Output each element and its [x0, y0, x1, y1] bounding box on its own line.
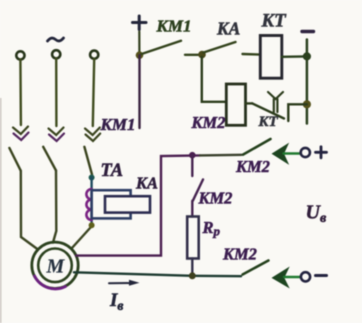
resistor Rp: [187, 217, 199, 259]
wire excitation top (motor to corner): [76, 155, 200, 255]
contact KM2 (plus side) blade: [243, 139, 271, 155]
svg-text:KM2: KM2: [222, 245, 257, 264]
relay coil KT: [260, 36, 282, 79]
node L1 terminal: [16, 51, 24, 59]
svg-text:KM1: KM1: [100, 115, 136, 134]
wire dead end down: [138, 55, 140, 128]
node KA pivot: [198, 51, 206, 59]
node rail KT coil: [303, 52, 311, 60]
node field branch bottom: [189, 272, 196, 279]
wire KA node down: [202, 57, 227, 102]
wire pole1 to motor: [21, 171, 38, 250]
wire phase L1: [19, 60, 22, 125]
contact KT delay symbol: [268, 92, 283, 99]
motor M outer circle: [32, 242, 78, 288]
wire excitation bottom: [74, 272, 241, 276]
terminal circle plus: [301, 148, 310, 157]
current transformer TA secondary humps: [86, 189, 91, 220]
node rail KT contact: [303, 100, 311, 108]
wire blade to resistor: [191, 201, 193, 217]
contact KM2 (discharge) blade: [193, 180, 203, 201]
svg-text:KM2: KM2: [198, 189, 233, 208]
connector arrow (minus terminal): [273, 268, 289, 287]
node L2 terminal: [52, 50, 60, 58]
svg-text:KM1: KM1: [156, 17, 192, 36]
motor M outer circle purple arc: [35, 276, 66, 289]
contact KM1 pole 1 blade: [9, 148, 20, 171]
minus sign (control supply): [302, 30, 314, 33]
plus sign (control supply): [133, 16, 147, 30]
svg-text:M: M: [46, 256, 66, 278]
supply arrow L2: [49, 128, 64, 136]
wire minus rail: [306, 40, 309, 124]
svg-text:KT: KT: [258, 114, 279, 130]
wire field discharge branch upper: [191, 155, 193, 176]
contact KM1 (control) blade: [142, 41, 182, 54]
page edge shadow: [0, 98, 2, 323]
svg-text:TA: TA: [101, 161, 124, 181]
plus sign (right): [316, 147, 327, 158]
wire plus to node: [138, 32, 140, 56]
svg-text:KA: KA: [135, 174, 158, 193]
node TA bottom junction: [89, 222, 95, 228]
KA coil loop rectangle: [92, 190, 131, 218]
wire KA to KT coil: [243, 53, 261, 56]
relay coil KA: [105, 196, 150, 212]
wire resistor to bottom: [191, 259, 193, 276]
supply arrow L3: [85, 128, 100, 136]
supply arrow L1: [13, 127, 28, 135]
contact KM2 (minus side) blade: [243, 261, 269, 275]
svg-text:KM2: KM2: [235, 157, 270, 176]
contactor coil KM2: [226, 84, 245, 125]
wire KT coil to rail: [282, 55, 307, 58]
node L3 terminal: [90, 51, 98, 59]
contact KM1 pole 2 blade: [43, 147, 56, 171]
svg-text:KT: KT: [261, 11, 288, 32]
wire pole2 to motor: [53, 171, 56, 243]
AC tilde symbol: [48, 38, 64, 41]
wire KT contact to rail: [288, 104, 307, 121]
wire KM2 coil to KT contact: [246, 102, 253, 104]
connector arrow (plus terminal): [273, 144, 289, 164]
wire phase L2: [55, 59, 58, 127]
node TA top junction: [89, 175, 95, 181]
contact KA blade: [204, 42, 236, 53]
minus sign (bottom): [316, 274, 327, 277]
contact KT (timed) blade: [252, 103, 284, 118]
svg-text:KA: KA: [216, 19, 240, 39]
wire KM1 to KA: [185, 54, 202, 56]
current arrow Iv: [109, 282, 134, 284]
node field branch top: [189, 152, 196, 159]
svg-text:KM2: KM2: [191, 113, 226, 132]
wire pole3 to motor: [72, 228, 91, 249]
node KM1 coil pivot: [136, 51, 144, 59]
terminal circle minus: [301, 272, 310, 281]
wire to plus terminal: [284, 152, 301, 154]
wire phase L3: [93, 59, 94, 126]
contact KM1 pole 3 blade: [84, 147, 92, 175]
wire TA primary: [90, 178, 92, 226]
motor M inner circle: [38, 248, 72, 282]
wire to minus terminal: [284, 276, 300, 278]
